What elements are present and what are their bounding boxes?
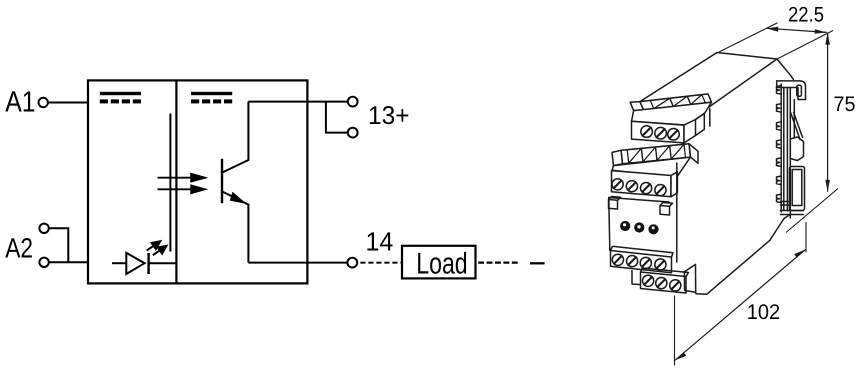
internal divider wall: [175, 80, 177, 283]
upper block chamfer: [632, 102, 712, 125]
LED emission arrow 2: [153, 246, 167, 255]
din rail tooth 5: [777, 158, 782, 167]
minus supply mark: [530, 262, 545, 264]
row2 right side face: [684, 264, 695, 292]
wire branch to lower 13 terminal: [326, 102, 348, 133]
second block front face: [612, 171, 672, 197]
din rail tooth 3: [777, 122, 782, 131]
wire LED cathode to divider: [149, 262, 176, 264]
side face bottom edge: [696, 240, 770, 294]
din rail foot edge: [770, 215, 790, 241]
front panel right edge: [676, 163, 678, 262]
din rail top arm and hook: [777, 81, 806, 100]
optocoupler outline box: [88, 80, 307, 283]
DC symbol right dashed bar: [191, 99, 232, 103]
row1 screw 1: [612, 254, 623, 265]
dashed wire to load: [360, 262, 402, 264]
wire A2 upper jumper: [49, 228, 68, 262]
upper screw 2: [655, 127, 667, 139]
upper screw 1: [641, 126, 653, 138]
row2 step edge: [632, 271, 641, 285]
second terminal slots band: [621, 144, 691, 164]
dashed wire from load: [478, 261, 518, 263]
second band left cap: [612, 150, 623, 165]
LED triangle: [126, 253, 144, 274]
din rail spine mid: [789, 88, 791, 219]
wire emitter to terminal 14: [248, 262, 347, 264]
load box: [402, 246, 476, 279]
upper block outer side edge: [696, 113, 705, 135]
ext line width left: [719, 23, 778, 52]
module back edge inner: [783, 88, 785, 211]
dimension line 102: [675, 250, 806, 361]
dimension extension lines: [675, 23, 839, 366]
din rail tooth 7: [777, 194, 782, 203]
phototransistor emitter arrowhead: [230, 192, 247, 204]
front panel top edge: [609, 198, 669, 203]
bottom block row2 top band: [641, 268, 689, 277]
upper block right side face: [684, 120, 696, 143]
phototransistor emitter lead: [222, 191, 248, 204]
svg-text:13+: 13+: [368, 102, 410, 130]
svg-text:102: 102: [747, 301, 780, 324]
LED indicator 2: [634, 222, 644, 232]
phototransistor base bar: [221, 159, 223, 203]
second block right side face: [671, 172, 677, 197]
svg-text:Load: Load: [416, 248, 468, 281]
module roof: [640, 53, 777, 108]
phototransistor collector lead: [222, 102, 248, 173]
LED indicator 3: [648, 224, 658, 234]
terminal 13 lower circle: [348, 128, 358, 138]
LED emission arrow 1: [147, 241, 161, 250]
second screw 4: [655, 185, 666, 196]
din rail spine inner: [793, 100, 795, 138]
din rail tooth 4: [777, 140, 782, 149]
module back edge outer: [780, 84, 782, 212]
second screw 1: [612, 179, 623, 190]
second slot 1: [627, 148, 643, 163]
row2 screw 1: [643, 275, 654, 286]
bottom block row1 top band: [611, 246, 674, 257]
wire emitter down: [247, 204, 249, 263]
ext line width right: [777, 31, 833, 60]
din rail spine outer: [786, 88, 788, 212]
din rail tooth 1: [777, 86, 782, 95]
second band right wing: [689, 144, 698, 164]
svg-text:A2: A2: [5, 233, 33, 264]
svg-text:75: 75: [834, 93, 856, 116]
terminal A2 lower circle: [39, 258, 48, 267]
terminal 13 upper circle: [348, 97, 358, 107]
upper terminal top slots band: [640, 94, 712, 110]
upper slot 2: [670, 96, 691, 106]
isolation barrier: [169, 114, 171, 252]
bottom block row1 front face: [611, 251, 672, 273]
side face front edge: [709, 109, 711, 127]
din rail hook slot: [797, 85, 802, 96]
terminal 14 circle: [347, 258, 357, 268]
second slot 3: [656, 146, 672, 161]
upper screw 3: [668, 129, 680, 141]
terminal A1 circle: [39, 98, 48, 107]
ext line depth top: [805, 222, 807, 253]
upper slot 1: [650, 98, 673, 109]
bottom block row2 front face: [641, 272, 687, 293]
din rail lower clip outer: [790, 167, 805, 211]
upper band left cap: [630, 102, 643, 111]
clip tab left: [609, 200, 618, 210]
clip tab right: [660, 206, 670, 216]
second block chamfer: [612, 157, 690, 177]
upper slot 3: [687, 95, 705, 105]
svg-text:14: 14: [366, 226, 394, 256]
second screw 2: [626, 181, 637, 192]
second screw 3: [641, 183, 652, 194]
row1 screw 3: [640, 257, 651, 268]
DC symbol right solid bar: [191, 92, 232, 95]
second slot 4: [670, 144, 686, 159]
wire A1 to box: [48, 102, 88, 104]
svg-text:A1: A1: [5, 85, 35, 118]
dimension line 22.5: [766, 27, 827, 34]
din rail latch: [790, 137, 803, 161]
wire A2 to box: [49, 261, 88, 263]
din rail tooth 6: [777, 176, 782, 185]
row1 screw 2: [627, 256, 638, 267]
upper terminal block front face: [632, 121, 685, 143]
row1 screw 4: [655, 259, 666, 270]
ext line height bottom: [786, 189, 838, 233]
ext line depth bottom: [674, 296, 676, 366]
wire LED anode: [112, 262, 126, 264]
din rail lower clip inner: [792, 170, 802, 206]
second slot 2: [641, 147, 657, 162]
DC symbol left solid bar: [100, 92, 141, 95]
dimension line 75: [825, 33, 830, 192]
din rail latch spring: [791, 113, 803, 140]
row2 screw 3: [670, 280, 681, 291]
terminal A2 upper circle: [39, 224, 48, 233]
LED cathode bar: [147, 253, 149, 274]
coupling arrow upper: [158, 174, 205, 182]
front panel left edge: [609, 198, 610, 251]
svg-text:22.5: 22.5: [788, 4, 824, 27]
din rail clip bars: [781, 202, 804, 215]
LED indicator 1: [620, 221, 630, 231]
din rail tooth 2: [777, 104, 782, 113]
row2 screw 2: [656, 278, 667, 289]
DC symbol left dashed bar: [100, 99, 141, 103]
roof right corner edge: [777, 59, 794, 80]
coupling arrow lower: [158, 186, 205, 194]
wire collector to terminal 13: [248, 101, 348, 103]
